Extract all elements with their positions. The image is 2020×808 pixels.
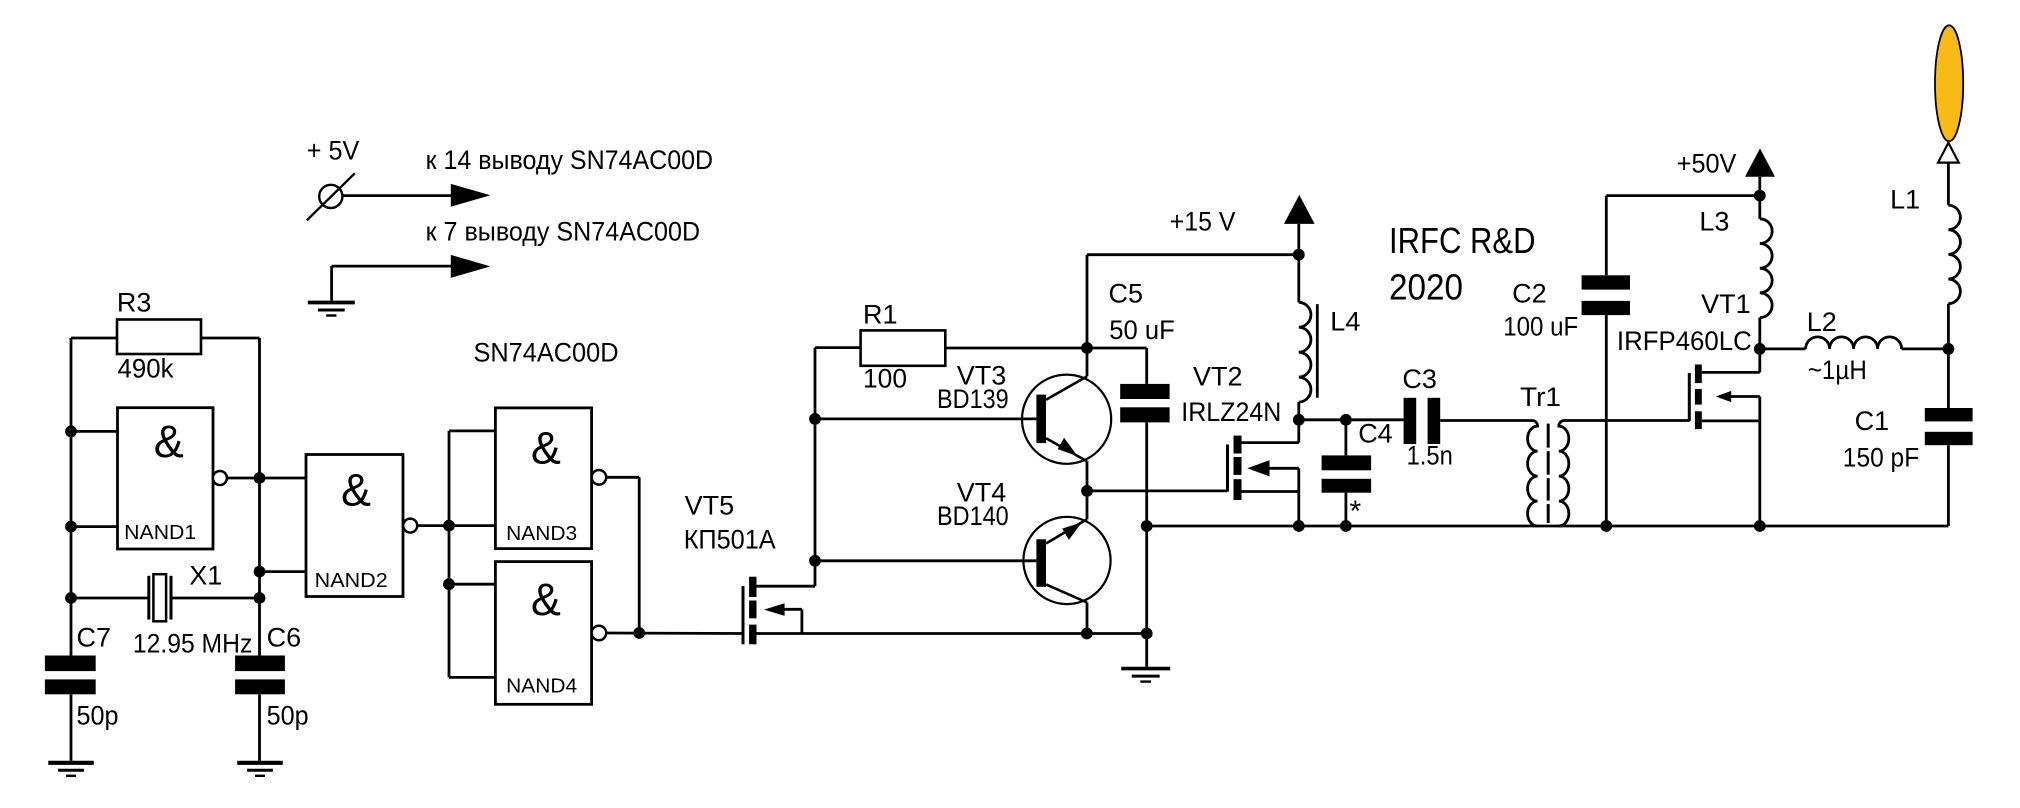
svg-text:2020: 2020 (1389, 267, 1463, 308)
svg-text:NAND1: NAND1 (124, 522, 196, 544)
svg-text:+15 V: +15 V (1170, 207, 1236, 237)
svg-text:L4: L4 (1330, 307, 1360, 337)
svg-text:NAND2: NAND2 (315, 570, 388, 592)
svg-text:+ 5V: + 5V (307, 136, 360, 166)
svg-text:VT2: VT2 (1193, 362, 1243, 392)
svg-text:50 uF: 50 uF (1109, 315, 1175, 345)
svg-text:&: & (531, 574, 561, 625)
svg-text:&: & (531, 422, 561, 473)
svg-text:NAND4: NAND4 (506, 676, 577, 698)
svg-text:BD139: BD139 (937, 384, 1009, 414)
svg-text:КП501А: КП501А (684, 525, 776, 555)
svg-text:X1: X1 (189, 561, 222, 591)
svg-text:VT1: VT1 (1701, 289, 1751, 319)
svg-text:IRLZ24N: IRLZ24N (1181, 397, 1281, 427)
svg-text:NAND3: NAND3 (506, 523, 577, 545)
svg-text:*: * (1350, 495, 1362, 528)
svg-text:~1µH: ~1µH (1808, 355, 1867, 385)
svg-text:Tr1: Tr1 (1520, 382, 1561, 412)
svg-text:C7: C7 (77, 623, 112, 653)
svg-text:C3: C3 (1402, 364, 1437, 394)
svg-text:100 uF: 100 uF (1503, 312, 1578, 342)
svg-text:L2: L2 (1807, 307, 1837, 337)
svg-text:&: & (154, 416, 184, 467)
svg-text:1.5n: 1.5n (1407, 441, 1453, 471)
svg-text:150 pF: 150 pF (1843, 443, 1919, 473)
svg-text:50p: 50p (77, 701, 119, 731)
svg-text:к 14 выводу SN74AC00D: к 14 выводу SN74AC00D (426, 145, 713, 175)
svg-text:C5: C5 (1109, 279, 1144, 309)
svg-text:L3: L3 (1699, 207, 1729, 237)
svg-text:12.95 MHz: 12.95 MHz (133, 629, 252, 659)
svg-text:100: 100 (863, 364, 907, 394)
svg-text:IRFC R&D: IRFC R&D (1389, 220, 1536, 261)
svg-text:&: & (341, 464, 371, 515)
svg-text:R3: R3 (117, 288, 152, 318)
svg-text:C6: C6 (267, 623, 302, 653)
svg-text:R1: R1 (863, 300, 898, 330)
svg-text:SN74AC00D: SN74AC00D (474, 338, 619, 368)
svg-text:+50V: +50V (1677, 149, 1737, 179)
svg-text:BD140: BD140 (937, 501, 1009, 531)
svg-text:к 7 выводу SN74AC00D: к 7 выводу SN74AC00D (426, 217, 700, 247)
svg-text:VT5: VT5 (685, 491, 735, 521)
svg-text:L1: L1 (1890, 185, 1920, 215)
svg-text:490k: 490k (118, 354, 174, 384)
svg-text:50p: 50p (267, 701, 309, 731)
svg-text:IRFP460LC: IRFP460LC (1617, 326, 1752, 356)
svg-text:C4: C4 (1358, 419, 1393, 449)
svg-text:C1: C1 (1855, 406, 1890, 436)
svg-text:C2: C2 (1512, 279, 1547, 309)
